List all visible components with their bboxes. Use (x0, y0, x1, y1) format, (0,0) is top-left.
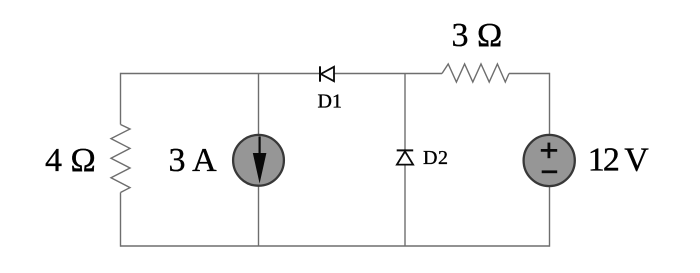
wire top middle (D1 to resistor) (334, 73, 442, 75)
current source I1 circle (233, 135, 284, 186)
wire right upper (549, 73, 551, 135)
voltage source minus sign (542, 170, 558, 173)
wire left upper (120, 73, 122, 125)
svg-text:4 Ω: 4 Ω (45, 142, 96, 179)
diode D2 triangle (397, 151, 413, 164)
svg-text:D1: D1 (318, 91, 342, 113)
wire top right (resistor to corner) (509, 73, 550, 75)
svg-text:3 Ω: 3 Ω (452, 17, 503, 54)
svg-text:12: 12 (588, 142, 619, 179)
wire bottom (121, 245, 550, 247)
wire current-source branch upper (258, 74, 260, 136)
wire D2 branch upper (404, 74, 406, 151)
wire D2 branch lower (404, 165, 406, 246)
wire right lower (549, 186, 551, 247)
svg-text:V: V (624, 142, 649, 179)
diode D1 cathode bar (319, 66, 321, 81)
diode D1 triangle (321, 67, 334, 81)
resistor R1 4ohm zigzag (111, 125, 130, 193)
resistor R2 3ohm zigzag (442, 64, 509, 82)
svg-text:3 A: 3 A (169, 142, 218, 179)
wire current-source branch lower (258, 186, 260, 247)
svg-text:D2: D2 (423, 147, 448, 169)
wire top-left segment (121, 73, 321, 75)
voltage source V1 circle (524, 135, 575, 186)
diode D2 cathode bar (397, 149, 414, 151)
voltage source plus sign (541, 149, 557, 152)
current source arrow (259, 137, 261, 159)
wire left lower (120, 193, 122, 247)
